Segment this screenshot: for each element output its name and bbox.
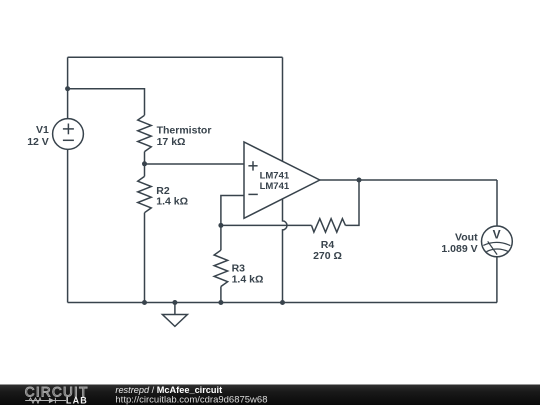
svg-text:Thermistor: Thermistor xyxy=(157,125,212,137)
svg-text:1.089 V: 1.089 V xyxy=(441,243,477,255)
wire feedback left segment xyxy=(221,224,312,226)
wire node A to thermistor top xyxy=(68,89,145,116)
node dot R2 to rail xyxy=(142,300,147,305)
thermistor label xyxy=(157,125,212,149)
wire bottom rail xyxy=(68,302,497,304)
svg-text:V1: V1 xyxy=(36,124,49,136)
svg-text:1.4 kΩ: 1.4 kΩ xyxy=(232,274,264,286)
op-amp U1 xyxy=(244,142,320,218)
thermistor RTH1 xyxy=(138,115,152,164)
svg-text:12 V: 12 V xyxy=(27,136,49,148)
R4 label xyxy=(313,239,342,262)
svg-text:V: V xyxy=(493,228,501,242)
CircuitLab logo glyph (wire-resistor-diode) xyxy=(25,398,66,403)
wire op-amp output xyxy=(320,179,497,181)
svg-text:LM741: LM741 xyxy=(260,181,290,192)
svg-text:LAB: LAB xyxy=(66,396,88,405)
voltmeter VM1 xyxy=(482,226,513,257)
R3 label xyxy=(232,262,264,285)
node dot V- supply to rail xyxy=(280,300,285,305)
wire R4 to output drop xyxy=(346,180,360,225)
wire V1 bottom lead xyxy=(67,150,69,303)
svg-text:1.4 kΩ: 1.4 kΩ xyxy=(156,196,188,208)
R2 label xyxy=(156,185,188,208)
Vout label xyxy=(441,231,478,255)
wire voltmeter top lead xyxy=(496,180,498,226)
wire V1 top lead xyxy=(67,57,69,118)
resistor R3 xyxy=(214,225,228,302)
node C junction dot (R3 / feedback / -input) xyxy=(218,223,223,228)
svg-text:restrepd / McAfee_circuit: restrepd / McAfee_circuit xyxy=(115,385,222,395)
wire op-amp V+ supply drop xyxy=(282,57,284,161)
V1 label xyxy=(27,124,49,148)
node dot R3 to rail xyxy=(218,300,223,305)
svg-text:17 kΩ: 17 kΩ xyxy=(157,136,186,148)
wire op-amp minus input xyxy=(221,196,244,226)
node D output junction dot xyxy=(357,178,362,183)
svg-text:http://circuitlab.com/cdra9d68: http://circuitlab.com/cdra9d6875w68 xyxy=(115,394,267,405)
wire top rail xyxy=(68,56,283,58)
wire voltmeter bottom lead xyxy=(496,257,498,303)
ground xyxy=(162,303,187,327)
node A junction dot xyxy=(65,86,70,91)
resistor R2 xyxy=(138,164,152,303)
svg-text:Vout: Vout xyxy=(455,231,478,243)
svg-text:LM741: LM741 xyxy=(260,171,290,182)
wire node B to op-amp plus input xyxy=(145,163,245,165)
wire op-amp V- supply drop with hop xyxy=(283,199,288,303)
node B junction dot (thermistor / R2 / +input) xyxy=(142,161,147,166)
node dot ground to rail xyxy=(172,300,177,305)
svg-text:270 Ω: 270 Ω xyxy=(313,250,342,262)
resistor R4 xyxy=(312,219,346,233)
footer bar xyxy=(0,385,540,405)
op-amp U1 label xyxy=(260,171,290,193)
voltage source V1 xyxy=(53,119,84,150)
